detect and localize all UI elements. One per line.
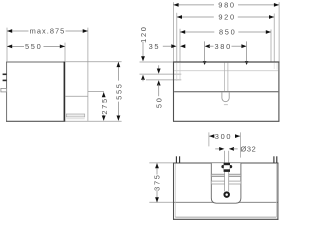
svg-text:555: 555 [115,82,124,99]
svg-text:max.875: max.875 [30,27,66,36]
svg-text:32: 32 [247,144,256,153]
svg-text:275: 275 [100,97,109,114]
svg-text:380: 380 [214,42,231,51]
svg-text:550: 550 [25,42,42,51]
svg-text:120: 120 [139,25,148,42]
svg-text:Ø: Ø [241,144,247,153]
svg-text:35: 35 [149,42,161,51]
svg-text:980: 980 [218,1,235,10]
svg-text:50: 50 [154,96,163,108]
svg-text:300: 300 [215,132,232,141]
svg-text:375: 375 [153,173,162,190]
svg-text:920: 920 [218,13,235,22]
svg-text:850: 850 [219,28,236,37]
